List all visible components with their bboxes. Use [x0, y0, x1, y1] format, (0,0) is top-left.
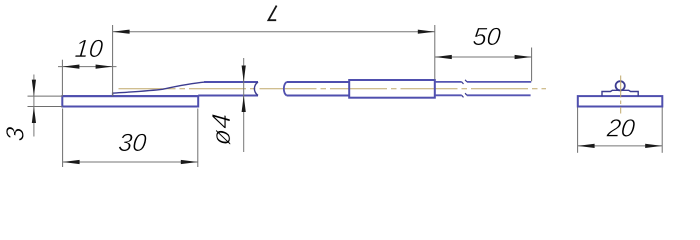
- dimension 50 line: [435, 56, 532, 58]
- dimension 30 arrow left: [63, 160, 80, 164]
- dimension 3 extension line top: [28, 95, 63, 97]
- dimension phi4 arrow down: [242, 66, 246, 83]
- dimension 20 arrow right: [645, 144, 662, 148]
- break tick bottom left: [462, 95, 464, 97]
- dimension L text: [268, 6, 276, 21]
- svg-text:50: 50: [472, 23, 502, 51]
- dimension 10 arrow left: [62, 65, 79, 69]
- svg-text:10: 10: [74, 35, 104, 63]
- extension line sleeve right (shared L / 50): [434, 25, 436, 79]
- dimension phi4 arrow up: [242, 96, 246, 113]
- break tick bottom right: [465, 93, 467, 95]
- cap vertical centerline: [620, 76, 622, 114]
- svg-text:3: 3: [2, 126, 30, 142]
- break tick top left: [462, 82, 464, 84]
- dimension 20 extension line right: [661, 108, 663, 153]
- tube segment 2 bottom line: [287, 95, 350, 97]
- dimension 50 extension line right: [531, 48, 533, 82]
- dimension 3 line: [33, 75, 35, 137]
- svg-text:ø4: ø4: [206, 112, 236, 147]
- dimension 3 arrow down: [32, 80, 36, 97]
- cap flange rectangle: [578, 96, 663, 106]
- dimension 50 arrow right: [515, 55, 532, 59]
- dimension L line: [113, 31, 435, 33]
- taper curve: [113, 82, 205, 96]
- dimension L arrow left: [113, 30, 130, 34]
- tail wire top line: [435, 81, 531, 83]
- dimension 30 extension line left: [62, 109, 64, 168]
- break tick top right: [465, 80, 467, 82]
- dimension 30 line: [63, 161, 198, 163]
- cap ring circle: [616, 81, 625, 90]
- tail wire bottom line: [435, 94, 531, 96]
- dimension 30 arrow right: [181, 160, 198, 164]
- dimension 20 arrow left: [578, 144, 595, 148]
- dimension 10 arrow right: [96, 65, 113, 69]
- cap knob plate: [602, 90, 638, 96]
- centerline main horizontal: [119, 88, 547, 90]
- sleeve rectangle: [349, 80, 435, 98]
- dimension 3 arrow up: [32, 107, 36, 124]
- dimension 20 extension line left: [577, 108, 579, 153]
- break cap concave end of segment 1: [254, 82, 258, 96]
- dimension phi4 line: [243, 58, 245, 152]
- dimension 50 arrow left: [435, 55, 452, 59]
- tube segment 1 bottom line: [198, 95, 258, 97]
- dimension L arrow right: [418, 30, 435, 34]
- dimension 3 extension line bottom: [28, 106, 63, 108]
- dimension 10 extension line right (shared with L): [112, 25, 114, 96]
- dimension 20 line: [578, 145, 663, 147]
- svg-text:20: 20: [605, 114, 636, 142]
- tube segment 1 top line: [204, 81, 258, 83]
- dimension 10 line: [58, 66, 117, 68]
- dimension 10 extension line left: [61, 60, 63, 96]
- break cap round start of segment 2: [284, 82, 287, 96]
- blade outline: [62, 95, 198, 106]
- tube segment 2 top line: [287, 81, 350, 83]
- blade top edge continuation: [62, 95, 198, 97]
- svg-text:30: 30: [117, 129, 147, 157]
- dimension 30 extension line right: [197, 109, 199, 168]
